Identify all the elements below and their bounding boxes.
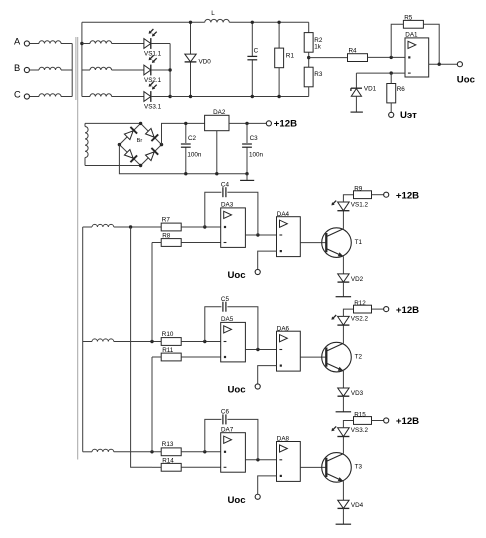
svg-text:C5: C5 (221, 296, 230, 303)
svg-text:R9: R9 (354, 186, 363, 193)
svg-text:Uoc: Uoc (228, 495, 247, 506)
svg-text:VD0: VD0 (199, 59, 212, 66)
svg-text:T3: T3 (355, 464, 363, 471)
svg-text:Br: Br (137, 138, 143, 144)
svg-text:R1: R1 (286, 53, 295, 60)
svg-text:VD2: VD2 (351, 276, 364, 283)
svg-text:VD3: VD3 (351, 390, 364, 397)
svg-text:C: C (14, 90, 21, 100)
svg-text:R5: R5 (404, 15, 413, 22)
svg-text:C: C (254, 47, 259, 54)
svg-text:Uoc: Uoc (457, 74, 476, 85)
svg-text:R7: R7 (162, 216, 171, 223)
svg-text:+12В: +12В (274, 119, 297, 130)
svg-text:DA7: DA7 (221, 427, 234, 434)
svg-text:DA5: DA5 (221, 316, 234, 323)
svg-text:L: L (211, 10, 215, 17)
svg-text:Uэт: Uэт (400, 110, 417, 121)
svg-text:DA6: DA6 (277, 325, 290, 332)
svg-text:DA1: DA1 (405, 32, 418, 39)
svg-text:VD1: VD1 (364, 86, 377, 93)
svg-text:VS1.2: VS1.2 (351, 201, 369, 208)
svg-text:1k: 1k (314, 43, 322, 50)
svg-text:100n: 100n (187, 151, 202, 158)
svg-text:R13: R13 (162, 441, 174, 448)
svg-text:VS3.1: VS3.1 (144, 103, 162, 110)
svg-text:+12В: +12В (396, 190, 419, 201)
svg-text:C4: C4 (221, 181, 230, 188)
svg-text:C6: C6 (221, 409, 230, 416)
svg-text:T1: T1 (355, 239, 363, 246)
svg-text:C2: C2 (188, 135, 197, 142)
svg-text:VD4: VD4 (351, 502, 364, 509)
svg-text:+12В: +12В (396, 416, 419, 427)
svg-text:DA4: DA4 (277, 211, 290, 218)
svg-text:VS2.2: VS2.2 (351, 316, 369, 323)
svg-text:R15: R15 (354, 411, 366, 418)
svg-text:DA2: DA2 (213, 109, 226, 116)
svg-text:C3: C3 (250, 135, 259, 142)
svg-text:100n: 100n (249, 151, 264, 158)
svg-text:B: B (14, 63, 20, 73)
svg-text:R6: R6 (397, 86, 406, 93)
svg-text:R12: R12 (354, 300, 366, 307)
svg-text:A: A (14, 37, 21, 47)
svg-text:VS3.2: VS3.2 (351, 427, 369, 434)
svg-text:Uoc: Uoc (228, 385, 247, 396)
svg-text:R10: R10 (162, 331, 174, 338)
svg-text:Uoc: Uoc (228, 270, 247, 281)
svg-text:R14: R14 (162, 457, 174, 464)
svg-text:R4: R4 (349, 47, 358, 54)
svg-text:R11: R11 (162, 347, 174, 354)
svg-text:DA8: DA8 (277, 436, 290, 443)
svg-text:R8: R8 (162, 233, 171, 240)
svg-text:+12В: +12В (396, 305, 419, 316)
svg-text:R3: R3 (314, 71, 323, 78)
svg-text:T2: T2 (355, 353, 363, 360)
svg-text:DA3: DA3 (221, 202, 234, 209)
